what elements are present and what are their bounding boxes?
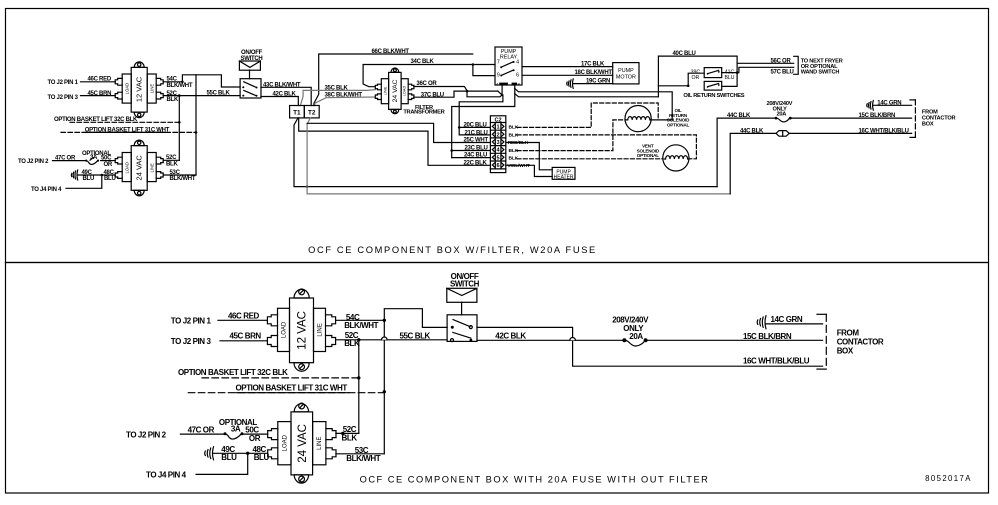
- rocker glyph (bottom): [447, 288, 477, 302]
- wire T1 to 22C BLK: [299, 118, 491, 165]
- svg-text:OPTIONAL: OPTIONAL: [667, 123, 690, 128]
- svg-text:BOX: BOX: [922, 122, 934, 128]
- svg-text:BLU: BLU: [724, 75, 734, 81]
- wire relay B to oil return solenoid: [515, 89, 673, 120]
- svg-text:5: 5: [497, 155, 500, 161]
- filter transformer body: [375, 68, 414, 114]
- border frame top section: [6, 9, 989, 263]
- wire upper pole to 16C: [477, 327, 823, 366]
- svg-text:FROM: FROM: [837, 329, 860, 338]
- svg-text:15C BLK/BRN: 15C BLK/BRN: [743, 332, 792, 341]
- switch box (bottom): [447, 315, 477, 342]
- svg-text:C2: C2: [495, 117, 502, 123]
- wire C2 pins4-5 riser to relay coil B: [452, 86, 515, 151]
- T-24VAC right tab 2: [156, 172, 163, 179]
- svg-text:7: 7: [497, 59, 500, 65]
- svg-text:MOTOR: MOTOR: [616, 74, 636, 80]
- hop 42C over 16C riser: [570, 338, 576, 341]
- svg-text:8052017A: 8052017A: [925, 474, 972, 483]
- switch box: [240, 79, 261, 98]
- svg-text:12 VAC: 12 VAC: [297, 311, 309, 350]
- svg-text:42C BLK: 42C BLK: [495, 332, 526, 341]
- 12VAC-B right tab 2: [326, 336, 336, 347]
- terminal T1: [290, 106, 305, 118]
- wire solenoid feed to relay coil A lower: [467, 91, 502, 97]
- svg-text:VIOL/WHT: VIOL/WHT: [507, 163, 530, 169]
- terminal T2: [304, 106, 319, 118]
- svg-text:55C BLK: 55C BLK: [207, 91, 231, 97]
- svg-text:2: 2: [497, 132, 500, 138]
- filter transformer right tab 1: [408, 84, 414, 90]
- ground (bottom 24vac): [205, 447, 214, 460]
- svg-text:T2: T2: [308, 110, 316, 117]
- transformer T-12VAC body: [131, 67, 147, 112]
- svg-text:LOAD: LOAD: [402, 86, 407, 97]
- svg-text:BOX: BOX: [837, 347, 854, 356]
- svg-text:BLU: BLU: [254, 453, 270, 462]
- svg-text:TO J2 PIN 1: TO J2 PIN 1: [48, 80, 79, 86]
- svg-text:3A: 3A: [90, 155, 98, 161]
- svg-text:TRANSFORMER: TRANSFORMER: [403, 110, 444, 116]
- svg-text:OPTION BASKET LIFT 32C BLK: OPTION BASKET LIFT 32C BLK: [178, 368, 288, 377]
- relay coil bars: [500, 83, 507, 85]
- svg-text:OR: OR: [692, 75, 700, 81]
- wire T2 to 25C WHT: [307, 123, 490, 142]
- oil return solenoid (optional): [625, 106, 651, 132]
- svg-text:LOAD: LOAD: [124, 162, 129, 173]
- svg-text:25C WHT: 25C WHT: [464, 138, 489, 144]
- svg-text:LINE: LINE: [149, 84, 154, 94]
- 24VAC-B left tab 1: [268, 429, 278, 440]
- svg-text:24 VAC: 24 VAC: [392, 79, 399, 102]
- svg-text:22C BLK: 22C BLK: [464, 160, 488, 166]
- wire C2 pins1-2 riser to relay coil A: [452, 86, 515, 151]
- bracket to next fryer: [794, 56, 799, 74]
- connector C2: [490, 116, 505, 173]
- T-24VAC right tab 1: [156, 157, 163, 164]
- filter transformer left tab 2: [375, 94, 381, 100]
- svg-text:TO J2 PIN 3: TO J2 PIN 3: [48, 95, 79, 101]
- svg-text:TO J2 PIN 2: TO J2 PIN 2: [126, 430, 167, 439]
- filter transformer left tab 1: [375, 84, 381, 90]
- bracket from contactor box (top): [910, 100, 915, 137]
- svg-text:BLU: BLU: [104, 176, 116, 182]
- pump relay U1: [495, 47, 522, 85]
- svg-text:3: 3: [497, 140, 500, 146]
- svg-text:9: 9: [497, 72, 500, 78]
- svg-text:B: B: [518, 82, 521, 86]
- svg-text:BLK/WHT: BLK/WHT: [170, 176, 196, 182]
- wire to oil return switch 1: [658, 85, 688, 87]
- svg-text:14C GRN: 14C GRN: [771, 315, 803, 324]
- T-12VAC right tab 1: [156, 78, 163, 85]
- vent solenoid (optional): [663, 145, 689, 171]
- svg-text:16C WHT/BLK/BLU: 16C WHT/BLK/BLU: [743, 357, 810, 366]
- switch stem: [249, 70, 251, 79]
- svg-text:3A: 3A: [231, 425, 241, 434]
- svg-text:OIL RETURN SWITCHES: OIL RETURN SWITCHES: [683, 93, 744, 99]
- wire pin6 to pump heater: [506, 165, 552, 176]
- svg-text:CONTACTOR: CONTACTOR: [837, 338, 884, 347]
- svg-text:6: 6: [516, 72, 519, 78]
- svg-text:BLU: BLU: [83, 176, 95, 182]
- svg-text:BLK/WHT: BLK/WHT: [344, 321, 378, 330]
- 12VAC-B right tab 1: [326, 315, 336, 326]
- ground (24VAC top): [71, 170, 77, 180]
- svg-text:BLU: BLU: [221, 453, 237, 462]
- wire relay A to 40C vertical: [515, 94, 659, 97]
- svg-text:24 VAC: 24 VAC: [297, 424, 309, 463]
- svg-text:WAND SWITCH: WAND SWITCH: [801, 69, 840, 75]
- T-12VAC right tab 2: [156, 92, 163, 99]
- svg-text:LINE: LINE: [149, 163, 154, 173]
- bracket from contactor box (bottom): [817, 314, 826, 369]
- svg-text:55C BLK: 55C BLK: [400, 331, 431, 340]
- svg-text:24 VAC: 24 VAC: [135, 155, 144, 181]
- wire vertical 54C-net to 31C and 53C: [195, 75, 198, 175]
- wire 23C/24C to riser: [450, 149, 490, 157]
- svg-text:OPTION BASKET LIFT 31C WHT: OPTION BASKET LIFT 31C WHT: [236, 383, 348, 392]
- svg-text:BLK: BLK: [167, 97, 179, 103]
- wire T2 to bus2: [306, 118, 730, 194]
- svg-text:21C BLU: 21C BLU: [465, 130, 488, 136]
- svg-text:A: A: [496, 82, 499, 86]
- svg-text:HEATER: HEATER: [554, 175, 574, 181]
- svg-text:LINE: LINE: [382, 86, 387, 95]
- T-12VAC left tab 2: [115, 92, 122, 99]
- svg-text:OR: OR: [249, 434, 261, 443]
- svg-text:OR: OR: [104, 162, 113, 168]
- svg-text:PUMP: PUMP: [618, 68, 634, 74]
- svg-text:T1: T1: [293, 110, 301, 117]
- pump heater: [552, 167, 575, 179]
- wire vertical 52C to 24VAC and option 32C: [178, 96, 181, 161]
- wire relay coil A diag: [498, 86, 502, 96]
- transformer T-24VAC body (top diagram): [115, 140, 163, 196]
- svg-text:OCF CE COMPONENT BOX WITH 20A: OCF CE COMPONENT BOX WITH 20A FUSE WITH …: [360, 475, 710, 485]
- svg-text:LOAD: LOAD: [124, 83, 129, 94]
- wire TO J4 PIN 4 (bottom): [196, 453, 248, 474]
- ground 14C (bottom): [757, 316, 766, 329]
- hop 55C over 54C riser: [382, 337, 388, 340]
- wire 21C to riser: [459, 127, 490, 134]
- svg-text:20A: 20A: [629, 332, 643, 341]
- svg-text:BLK: BLK: [166, 161, 178, 167]
- svg-text:TO J2 PIN 3: TO J2 PIN 3: [171, 337, 212, 346]
- svg-text:BLK/WHT: BLK/WHT: [346, 454, 380, 463]
- wire pin3 to pump heater: [506, 143, 552, 170]
- svg-text:LINE: LINE: [317, 437, 323, 450]
- 12VAC-B left tab 1: [267, 315, 277, 326]
- transformer 12VAC (bottom): [267, 289, 335, 371]
- svg-text:LOAD: LOAD: [283, 434, 289, 451]
- wire 34C drop to relay pin 9: [473, 65, 495, 76]
- 12VAC-B left tab 2: [267, 336, 277, 347]
- svg-text:TO J4 PIN 4: TO J4 PIN 4: [146, 471, 187, 480]
- contacts: [242, 86, 244, 88]
- svg-text:TO J2 PIN 2: TO J2 PIN 2: [18, 159, 49, 165]
- svg-text:LINE: LINE: [318, 323, 324, 336]
- svg-text:OPTIONAL: OPTIONAL: [637, 153, 660, 158]
- oil return switch 1: [704, 68, 722, 78]
- svg-text:LOAD: LOAD: [282, 321, 288, 338]
- svg-text:6: 6: [497, 163, 500, 169]
- T-24VAC left tab 2: [115, 172, 122, 179]
- svg-text:12 VAC: 12 VAC: [135, 76, 144, 102]
- svg-text:OCF CE COMPONENT BOX W/FILTER,: OCF CE COMPONENT BOX W/FILTER, W20A FUSE: [308, 245, 597, 255]
- T-24VAC left tab 1: [115, 157, 122, 164]
- 24VAC-B right tab 1: [326, 429, 336, 440]
- 24VAC-B left tab 2: [268, 448, 278, 459]
- svg-text:SWITCH: SWITCH: [450, 279, 480, 288]
- svg-text:47C OR: 47C OR: [188, 426, 215, 435]
- svg-text:TO J4 PIN 4: TO J4 PIN 4: [31, 187, 62, 193]
- fuse 20A (top): [775, 117, 778, 120]
- svg-text:57C BLU: 57C BLU: [771, 69, 794, 75]
- filter transformer right tab 2: [408, 94, 414, 100]
- wire T1 to bus1: [294, 118, 717, 187]
- svg-text:20C BLU: 20C BLU: [464, 123, 487, 129]
- svg-text:TO J2 PIN 1: TO J2 PIN 1: [171, 316, 212, 325]
- svg-text:45C BRN: 45C BRN: [230, 332, 262, 341]
- border frame bottom section: [6, 263, 989, 494]
- svg-text:4: 4: [516, 59, 519, 65]
- svg-text:46C RED: 46C RED: [228, 311, 259, 320]
- T-12VAC left tab 1: [115, 78, 122, 85]
- transformer 24VAC (bottom): [268, 403, 336, 483]
- 24VAC-B right tab 2: [326, 448, 336, 459]
- inline connector: [776, 131, 789, 137]
- ground 19C: [567, 79, 573, 88]
- svg-text:20A: 20A: [777, 112, 787, 118]
- oil return switch 2: [704, 81, 722, 90]
- rocker glyph: [239, 61, 260, 70]
- stem: [461, 302, 463, 315]
- svg-text:BLK/WHT: BLK/WHT: [167, 83, 193, 89]
- vertical 54C net riser: [383, 320, 386, 454]
- pump motor M1: [613, 63, 639, 84]
- wire TO J4 PIN 4: [66, 175, 102, 188]
- svg-text:45C BRN: 45C BRN: [88, 91, 112, 97]
- svg-text:1: 1: [497, 125, 500, 131]
- ground 14C: [867, 101, 874, 111]
- vertical 52C net riser: [357, 340, 360, 434]
- svg-text:RELAY: RELAY: [500, 54, 518, 60]
